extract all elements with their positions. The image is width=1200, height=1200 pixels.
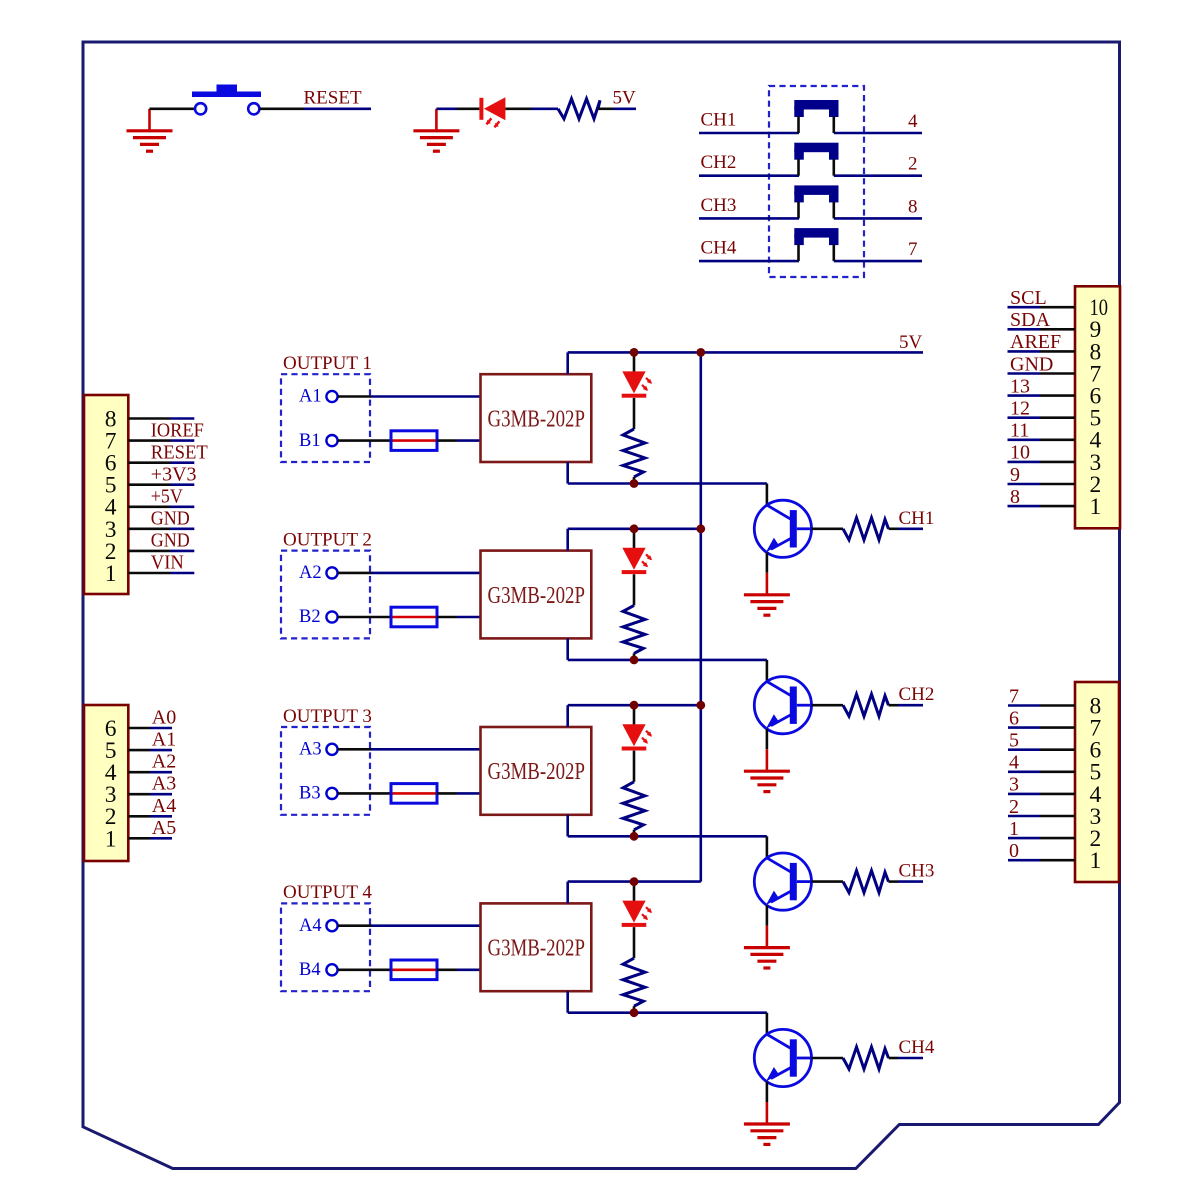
resistor R2 (623, 605, 645, 653)
pin 3 (105, 782, 172, 808)
wire (812, 1057, 844, 1060)
svg-text:GND: GND (151, 508, 190, 530)
pin 5 (105, 473, 195, 499)
connector P3 (1075, 286, 1120, 528)
pin 2 (105, 539, 195, 565)
wire trunk (699, 352, 702, 881)
pin 6 (105, 451, 195, 477)
wire (812, 527, 844, 530)
wire (889, 704, 899, 707)
wire (566, 705, 569, 727)
svg-text:5V: 5V (613, 88, 637, 109)
wire (633, 529, 636, 549)
svg-text:CH3: CH3 (899, 861, 935, 882)
wire (568, 704, 701, 707)
svg-text:A5: A5 (152, 817, 176, 839)
ground (413, 109, 459, 151)
pin 1 (105, 561, 195, 587)
svg-text:IOREF: IOREF (151, 419, 204, 441)
svg-text:B2: B2 (299, 607, 321, 627)
svg-text:CH3: CH3 (701, 195, 737, 216)
svg-text:8: 8 (1010, 486, 1020, 508)
wire (338, 924, 371, 927)
pin B4 (299, 960, 338, 980)
wire (566, 352, 569, 374)
output connector dashed box OUTPUT 4 (281, 903, 370, 991)
wire (505, 108, 531, 111)
wire (834, 217, 922, 220)
wire (812, 880, 844, 883)
svg-text:GND: GND (151, 530, 190, 552)
pin A3 (299, 740, 338, 760)
wire (834, 260, 922, 263)
wire (566, 882, 569, 904)
svg-text:G3MB-202P: G3MB-202P (487, 936, 585, 962)
wire (766, 553, 769, 573)
svg-text:SCL: SCL (1010, 287, 1047, 309)
resistor R8 (843, 1047, 889, 1069)
pin 6 (1008, 384, 1102, 410)
junction (630, 348, 639, 357)
svg-text:5V: 5V (899, 332, 923, 353)
pin A4 (299, 916, 338, 936)
junction (696, 348, 705, 357)
wire (633, 398, 636, 429)
svg-text:A2: A2 (152, 751, 176, 773)
pin 8 (1008, 693, 1101, 719)
junction (630, 1008, 639, 1017)
wire (568, 527, 701, 530)
svg-text:CH4: CH4 (899, 1037, 935, 1058)
svg-text:8: 8 (908, 196, 918, 217)
wire (566, 529, 569, 551)
svg-text:CH1: CH1 (899, 508, 935, 529)
pin 5 (1008, 406, 1102, 432)
pin 4 (1008, 782, 1102, 808)
output connector dashed box OUTPUT 1 (281, 374, 370, 462)
svg-text:G3MB-202P: G3MB-202P (487, 406, 585, 432)
wire (568, 482, 767, 485)
wire (766, 1082, 769, 1102)
LED D3 (622, 724, 652, 750)
svg-text:0: 0 (1009, 840, 1019, 862)
wire (834, 174, 922, 177)
pin 4 (105, 760, 172, 786)
svg-text:4: 4 (1009, 752, 1019, 774)
ground (744, 573, 790, 615)
svg-text:A3: A3 (299, 740, 322, 760)
svg-text:B1: B1 (299, 431, 321, 451)
wire (633, 705, 636, 725)
jumper J2 (794, 143, 838, 176)
output connector dashed box OUTPUT 2 (281, 551, 370, 639)
LED D2 (622, 548, 652, 574)
svg-text:AREF: AREF (1010, 331, 1061, 353)
svg-text:1: 1 (105, 826, 117, 852)
wire 5V rail (568, 351, 923, 354)
connector P2 (84, 705, 128, 861)
pin 3 (1008, 804, 1101, 830)
jumper block dashed box (769, 86, 864, 277)
svg-text:4: 4 (908, 111, 918, 132)
svg-text:OUTPUT 4: OUTPUT 4 (283, 882, 372, 903)
junction (630, 832, 639, 841)
fuse F4 (391, 960, 437, 980)
pin 4 (105, 495, 195, 521)
svg-text:10: 10 (1010, 442, 1030, 464)
wire (568, 880, 701, 883)
transistor Q4 (754, 1029, 811, 1086)
pin 7 (105, 428, 195, 454)
svg-text:A3: A3 (152, 773, 176, 795)
svg-text:7: 7 (1009, 685, 1019, 707)
wire (633, 574, 636, 605)
ground (127, 109, 173, 151)
svg-text:RESET: RESET (151, 441, 208, 463)
pin 6 (1008, 738, 1102, 764)
svg-text:1: 1 (1009, 818, 1019, 840)
pin 2 (1008, 826, 1101, 852)
jumper J4 (794, 228, 838, 261)
pin 7 (1008, 361, 1102, 387)
svg-text:OUTPUT 1: OUTPUT 1 (283, 353, 372, 374)
relay U3 G3MB-202P (481, 727, 592, 815)
connector P4 (1075, 682, 1119, 882)
wire (338, 968, 391, 971)
wire (633, 882, 636, 902)
svg-text:OUTPUT 2: OUTPUT 2 (283, 529, 372, 550)
pin 8 (1008, 339, 1102, 365)
pin 1 (1008, 494, 1102, 520)
wire (566, 815, 569, 837)
svg-text:GND: GND (1010, 353, 1053, 375)
svg-text:2: 2 (1009, 796, 1019, 818)
fuse F1 (391, 431, 437, 451)
output connector dashed box OUTPUT 3 (281, 727, 370, 815)
wire (338, 792, 391, 795)
resistor R6 (843, 694, 889, 716)
ground (744, 1102, 790, 1144)
wire (338, 748, 371, 751)
pin 6 (105, 716, 172, 742)
wire (436, 108, 457, 111)
relay U1 G3MB-202P (481, 374, 592, 462)
svg-text:G3MB-202P: G3MB-202P (487, 759, 585, 785)
svg-text:11: 11 (1010, 420, 1029, 442)
pin 7 (1008, 716, 1102, 742)
resistor R4 (623, 958, 645, 1006)
svg-text:A4: A4 (152, 795, 176, 817)
wire (568, 835, 767, 838)
svg-text:12: 12 (1010, 398, 1030, 420)
wire (338, 616, 391, 619)
svg-text:13: 13 (1010, 375, 1030, 397)
jumper J1 (794, 100, 838, 133)
svg-text:B3: B3 (299, 784, 321, 804)
pin A2 (299, 563, 338, 583)
pin 1 (1008, 848, 1101, 874)
wire (437, 968, 457, 971)
pin 2 (1008, 472, 1102, 498)
svg-text:2: 2 (908, 154, 918, 175)
wire (633, 1006, 636, 1013)
resistor R1 (623, 429, 645, 477)
junction (630, 877, 639, 886)
svg-text:B4: B4 (299, 960, 321, 980)
LED D1 (622, 371, 652, 397)
junction (630, 479, 639, 488)
svg-text:OUTPUT 3: OUTPUT 3 (283, 706, 372, 727)
pin A1 (299, 387, 338, 407)
svg-text:CH4: CH4 (701, 238, 737, 259)
relay U2 G3MB-202P (481, 551, 592, 639)
wire (633, 477, 636, 484)
pin 1 (105, 826, 172, 852)
wire (338, 395, 371, 398)
wire (766, 729, 769, 749)
svg-text:A2: A2 (299, 563, 322, 583)
junction (696, 701, 705, 710)
wire (150, 108, 196, 111)
svg-text:A1: A1 (152, 729, 176, 751)
svg-text:VIN: VIN (151, 552, 184, 574)
svg-text:1: 1 (105, 561, 117, 587)
pin B1 (299, 431, 338, 451)
wire CH2 (699, 174, 799, 177)
wire (568, 1011, 767, 1014)
wire CH1 (699, 132, 799, 135)
junction (630, 656, 639, 665)
wire (338, 439, 391, 442)
pin 8 (105, 406, 195, 432)
pin 3 (105, 517, 195, 543)
wire CH4 (699, 260, 799, 263)
wire (260, 108, 304, 111)
wire (812, 704, 844, 707)
svg-text:CH2: CH2 (701, 152, 737, 173)
svg-text:A4: A4 (299, 916, 322, 936)
wire (437, 792, 457, 795)
pin 5 (1008, 760, 1101, 786)
junction (630, 701, 639, 710)
wire (889, 527, 899, 530)
junction (630, 524, 639, 533)
pin 9 (1008, 317, 1102, 343)
svg-text:CH2: CH2 (899, 684, 935, 705)
wire CH3 (699, 217, 799, 220)
svg-text:SDA: SDA (1010, 309, 1051, 331)
wire (338, 572, 371, 575)
svg-text:+3V3: +3V3 (151, 463, 197, 485)
connector P1 (84, 395, 128, 594)
wire (834, 132, 922, 135)
wire (437, 439, 457, 442)
jumper J3 (794, 185, 838, 218)
svg-text:1: 1 (1090, 494, 1102, 520)
wire (633, 352, 636, 372)
svg-text:A1: A1 (299, 387, 322, 407)
wire (766, 905, 769, 925)
wire (633, 653, 636, 660)
pin B3 (299, 784, 338, 804)
wire (766, 484, 769, 506)
wire (568, 659, 767, 662)
transistor Q2 (754, 677, 811, 734)
ground (744, 926, 790, 968)
wire (766, 1013, 769, 1035)
pin 10 (1008, 295, 1109, 321)
resistor R7 (843, 871, 889, 893)
fuse F2 (391, 607, 437, 627)
wire (633, 830, 636, 837)
svg-text:5: 5 (1009, 730, 1019, 752)
LED D4 (622, 901, 652, 927)
resistor R9 (558, 99, 600, 119)
pin 5 (105, 738, 172, 764)
wire (566, 462, 569, 484)
wire (437, 616, 457, 619)
transistor Q1 (754, 500, 811, 557)
LED D5 (479, 97, 505, 127)
svg-text:1: 1 (1090, 848, 1102, 874)
wire (766, 836, 769, 858)
ground (744, 749, 790, 791)
svg-text:+5V: +5V (151, 485, 183, 507)
wire (598, 108, 613, 111)
resistor R5 (843, 518, 889, 540)
wire (633, 751, 636, 782)
fuse F3 (391, 784, 437, 804)
relay U4 G3MB-202P (481, 903, 592, 991)
wire (766, 660, 769, 682)
svg-text:7: 7 (908, 239, 918, 260)
svg-text:CH1: CH1 (701, 110, 737, 131)
pin B2 (299, 607, 338, 627)
svg-text:6: 6 (1009, 707, 1019, 729)
pin 3 (1008, 450, 1102, 476)
svg-text:3: 3 (1009, 774, 1019, 796)
pushbutton RESET (192, 85, 261, 115)
wire (566, 991, 569, 1013)
junction (696, 524, 705, 533)
pin 4 (1008, 428, 1102, 454)
svg-text:A0: A0 (152, 707, 176, 729)
wire (566, 638, 569, 660)
wire (633, 927, 636, 958)
svg-text:RESET: RESET (304, 88, 362, 109)
svg-text:9: 9 (1010, 464, 1020, 486)
transistor Q3 (754, 853, 811, 910)
svg-text:G3MB-202P: G3MB-202P (487, 583, 585, 609)
pin 2 (105, 804, 172, 830)
wire (889, 1057, 899, 1060)
wire (889, 880, 899, 883)
resistor R3 (623, 782, 645, 830)
